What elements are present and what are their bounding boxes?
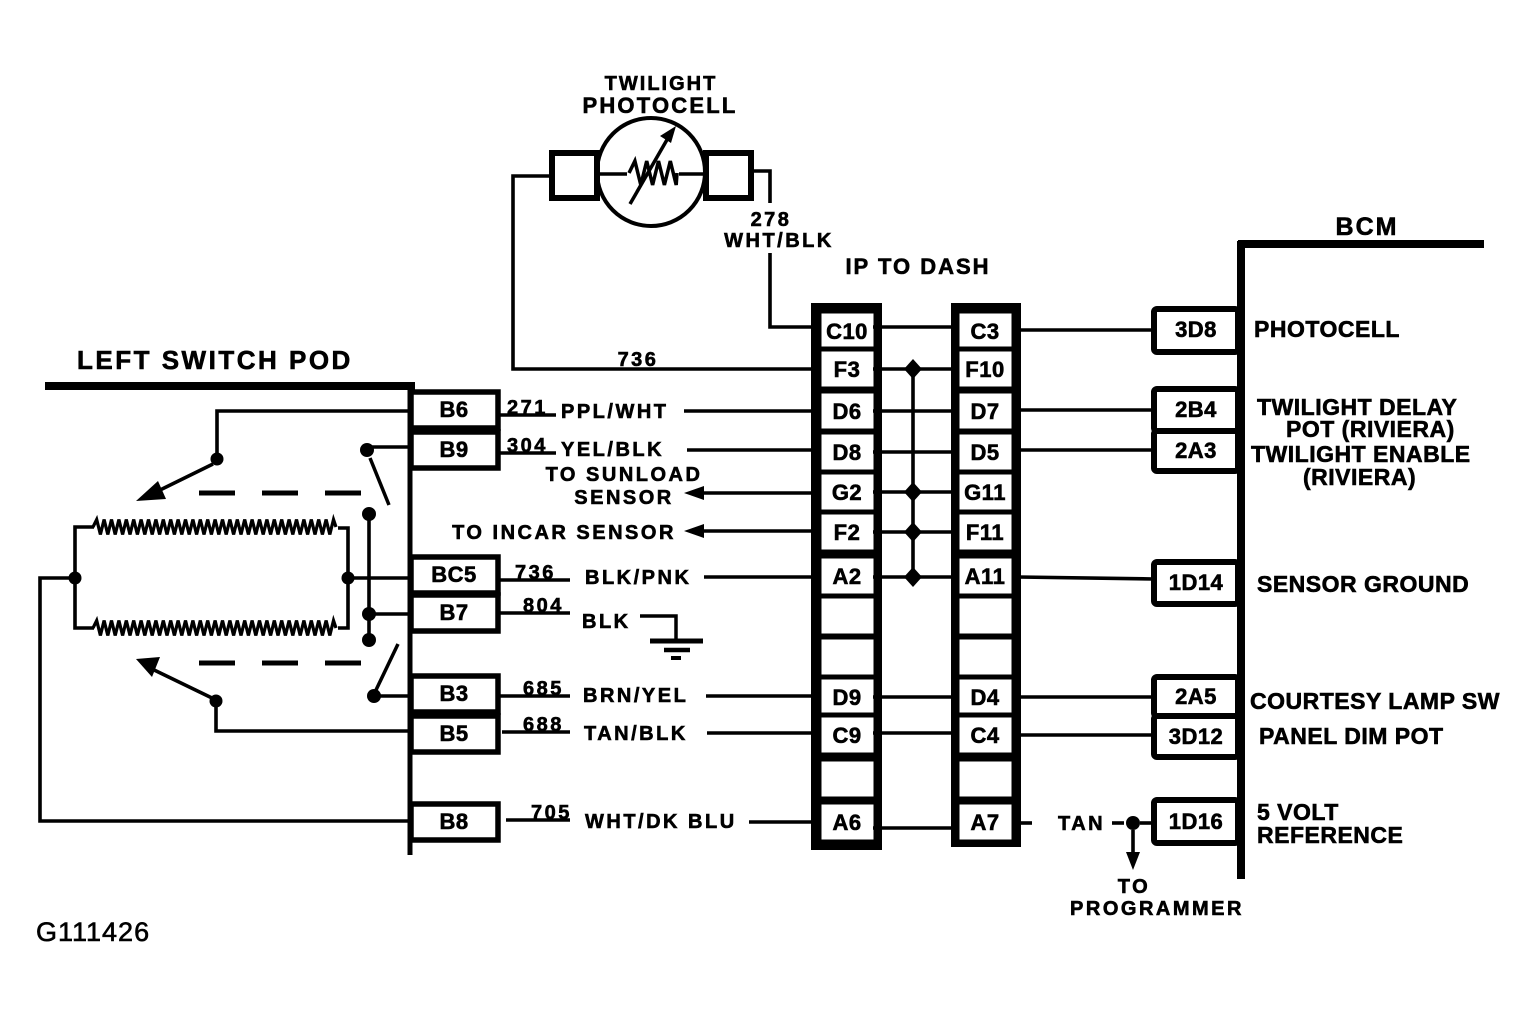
svg-text:A11: A11 — [965, 564, 1006, 589]
wire D9 to D4 — [873, 695, 959, 699]
wire 804 BLK from B7 to ground — [498, 611, 570, 615]
svg-text:B5: B5 — [439, 721, 468, 746]
svg-text:BRN/YEL: BRN/YEL — [583, 685, 688, 707]
dashed wiper travel line (top) — [199, 491, 363, 496]
wire C10 to C3 — [873, 325, 959, 329]
svg-text:TO: TO — [1118, 876, 1150, 898]
ground symbol G101 — [650, 639, 703, 644]
wire from bus to B7 — [369, 612, 411, 616]
svg-text:C3: C3 — [970, 319, 999, 344]
wire TAN to programmer — [1131, 830, 1135, 856]
wire from pot right terminal to BC5 — [348, 576, 411, 580]
potentiometer R1 top track — [93, 520, 336, 535]
node lower end of pod bus — [362, 633, 376, 647]
pin 2A3 (BCM) — [1154, 431, 1238, 471]
wire F2 to F11 — [873, 530, 959, 534]
BCM left boundary — [1237, 241, 1245, 879]
wire D4 to 2A5 — [1018, 695, 1154, 699]
pin A2 (IP column row) — [819, 556, 876, 596]
svg-text:BCM: BCM — [1336, 213, 1399, 241]
svg-text:D4: D4 — [970, 685, 999, 710]
svg-text:PROGRAMMER: PROGRAMMER — [1070, 898, 1244, 920]
potentiometer R1 bottom track — [93, 621, 336, 636]
photocell PC1 variability arrow — [630, 138, 668, 204]
pin G2 (IP column row) — [819, 472, 876, 512]
wire A7 TAN to 1D16 — [1018, 821, 1032, 825]
pin F2 (IP column row) — [819, 512, 876, 552]
pin blank (IP column row) — [819, 637, 876, 677]
svg-text:PANEL DIM POT: PANEL DIM POT — [1259, 723, 1444, 749]
pin 3D8 (BCM) — [1154, 309, 1238, 352]
svg-text:2A3: 2A3 — [1175, 438, 1217, 463]
pin 2A5 (BCM) — [1154, 677, 1238, 716]
pin blank (dash column row) — [957, 596, 1014, 636]
pin 3D12 (BCM) — [1154, 716, 1238, 757]
svg-text:PHOTOCELL: PHOTOCELL — [582, 93, 737, 118]
svg-text:D8: D8 — [832, 440, 861, 465]
pin 1D16 (BCM) — [1154, 800, 1238, 843]
junction left pot terminal — [69, 572, 82, 585]
pin B8 (left switch pod) — [411, 804, 498, 840]
svg-text:C4: C4 — [970, 723, 999, 748]
pod internal bus wire — [367, 514, 371, 640]
svg-text:BC5: BC5 — [431, 562, 477, 587]
connector column dash side (right) — [954, 306, 1018, 844]
svg-text:YEL/BLK: YEL/BLK — [561, 439, 664, 461]
node upper end of pod bus — [362, 507, 376, 521]
svg-text:736: 736 — [515, 562, 556, 584]
wire C3 to 3D8 — [1018, 328, 1154, 332]
wire 705 WHT/DK BLU from B8 to A6 — [506, 818, 570, 822]
wire A2 to A11 — [873, 575, 959, 579]
svg-text:SENSOR GROUND: SENSOR GROUND — [1257, 571, 1469, 597]
junction at G2 — [904, 482, 922, 502]
top wiper arrow — [156, 464, 213, 492]
wire 271 PPL/WHT from B6 to D6 — [498, 413, 556, 417]
wire 278 WHT/BLK from photocell right terminal to pin C10 — [751, 171, 770, 203]
pin D8 (IP column row) — [819, 432, 876, 472]
svg-text:1D16: 1D16 — [1169, 809, 1224, 834]
wire C9 to C4 — [873, 731, 959, 735]
svg-text:SENSOR: SENSOR — [574, 487, 673, 509]
BCM top boundary — [1238, 240, 1484, 248]
svg-text:TWILIGHT: TWILIGHT — [605, 73, 718, 95]
svg-text:LEFT SWITCH POD: LEFT SWITCH POD — [77, 345, 353, 375]
svg-text:271: 271 — [507, 397, 548, 419]
wire from bottom wiper to B5 — [216, 701, 411, 731]
pin B7 (left switch pod) — [411, 595, 498, 631]
pin F11 (dash column row) — [957, 512, 1014, 552]
pin D7 (dash column row) — [957, 391, 1014, 431]
pin blank (dash column row) — [957, 759, 1014, 799]
pin 1D14 (BCM) — [1154, 562, 1238, 604]
svg-text:D9: D9 — [832, 685, 861, 710]
junction at A2 — [904, 567, 922, 587]
svg-text:D7: D7 — [970, 399, 999, 424]
svg-text:G111426: G111426 — [36, 917, 150, 947]
svg-text:TAN: TAN — [1058, 813, 1105, 835]
pin B5 (left switch pod) — [411, 716, 498, 752]
svg-text:688: 688 — [523, 714, 564, 736]
pin B9 (left switch pod) — [411, 432, 498, 468]
junction at F2 — [904, 522, 922, 542]
svg-text:304: 304 — [507, 435, 548, 457]
junction B3 switch pivot — [367, 689, 381, 703]
potentiometer left end connector — [75, 527, 94, 628]
svg-text:3D8: 3D8 — [1175, 317, 1217, 342]
svg-text:B3: B3 — [439, 681, 468, 706]
junction TAN splice — [1126, 816, 1140, 830]
potentiometer right end connector — [338, 528, 348, 628]
wire 736 from photocell left terminal to pin F3 — [513, 176, 814, 369]
left switch pod top boundary — [45, 382, 415, 390]
pin C3 (dash column row) — [957, 311, 1014, 351]
svg-text:B6: B6 — [439, 397, 468, 422]
pin B3 (left switch pod) — [411, 676, 498, 712]
svg-text:A2: A2 — [832, 564, 861, 589]
pin A6 (IP column row) — [819, 802, 876, 842]
svg-text:F11: F11 — [966, 520, 1004, 545]
svg-text:G11: G11 — [964, 480, 1006, 505]
svg-text:F3: F3 — [834, 357, 861, 382]
svg-text:TO INCAR SENSOR: TO INCAR SENSOR — [452, 522, 676, 544]
connector column IP side (left) — [814, 306, 879, 847]
switch blade from B3 contact — [376, 644, 398, 690]
wire 688 TAN/BLK from B5 to C9 — [502, 730, 570, 734]
svg-text:B9: B9 — [439, 437, 468, 462]
wire D8 to D5 — [873, 450, 959, 454]
svg-text:804: 804 — [523, 595, 564, 617]
wire A11 to 1D14 — [1018, 577, 1154, 579]
wire from B3 pivot to B3 — [380, 694, 411, 698]
wire G2 to G11 — [873, 490, 959, 494]
svg-text:WHT/DK BLU: WHT/DK BLU — [585, 811, 737, 833]
pin blank (dash column row) — [957, 637, 1014, 677]
wire from B9 to switch contact — [372, 445, 411, 449]
pin D5 (dash column row) — [957, 432, 1014, 472]
pin F3 (IP column row) — [819, 349, 876, 389]
pin A11 (dash column row) — [957, 556, 1014, 596]
photocell PC1 resistor element — [597, 172, 627, 176]
svg-text:705: 705 — [531, 802, 572, 824]
svg-text:PPL/WHT: PPL/WHT — [561, 401, 669, 423]
pin BC5 (left switch pod) — [411, 557, 498, 593]
wire 685 BRN/YEL from B3 to D9 — [498, 694, 570, 698]
svg-text:F10: F10 — [965, 357, 1004, 382]
wire F3 to F10 — [873, 367, 959, 371]
svg-text:D6: D6 — [832, 399, 861, 424]
svg-text:C10: C10 — [826, 319, 868, 344]
pin blank (IP column row) — [819, 596, 876, 636]
svg-text:F2: F2 — [834, 520, 861, 545]
wire from B6 to top wiper — [217, 411, 411, 459]
svg-text:278: 278 — [751, 209, 792, 231]
pin A7 (dash column row) — [957, 802, 1014, 842]
svg-text:3D12: 3D12 — [1169, 724, 1224, 749]
pin F10 (dash column row) — [957, 349, 1014, 389]
svg-text:1D14: 1D14 — [1169, 570, 1224, 595]
svg-text:D5: D5 — [970, 440, 999, 465]
junction top wiper pivot — [211, 453, 224, 466]
svg-text:IP TO DASH: IP TO DASH — [845, 254, 990, 279]
wire A6 to A7 — [873, 826, 959, 830]
wire 736 BLK/PNK from BC5 to A2 — [498, 578, 570, 582]
photocell PC1 left terminal — [552, 153, 597, 198]
pin D6 (IP column row) — [819, 391, 876, 431]
svg-text:(RIVIERA): (RIVIERA) — [1303, 464, 1416, 490]
photocell PC1 body — [597, 118, 705, 226]
wire C4 to 3D12 — [1018, 733, 1154, 737]
svg-text:COURTESY LAMP SW: COURTESY LAMP SW — [1250, 688, 1500, 714]
pin B6 (left switch pod) — [411, 392, 498, 428]
dashed wiper travel line (bottom) — [199, 661, 363, 666]
left switch pod right boundary — [408, 384, 413, 855]
svg-text:685: 685 — [523, 678, 564, 700]
junction at F3 — [904, 359, 922, 379]
pin C10 (IP column row) — [819, 311, 876, 351]
junction B9 switch pivot — [360, 443, 374, 457]
photocell PC1 right terminal — [706, 153, 751, 198]
junction right pot terminal — [342, 572, 355, 585]
wire D6 to D7 — [873, 409, 959, 413]
svg-text:736: 736 — [618, 349, 659, 371]
switch blade from B9 contact — [370, 458, 389, 505]
svg-text:TO SUNLOAD: TO SUNLOAD — [546, 464, 703, 486]
wire from pot left terminal to B8 — [40, 578, 411, 821]
svg-text:TAN/BLK: TAN/BLK — [584, 723, 688, 745]
junction bottom wiper pivot — [210, 695, 223, 708]
pin G11 (dash column row) — [957, 472, 1014, 512]
pin C9 (IP column row) — [819, 715, 876, 755]
svg-text:2A5: 2A5 — [1175, 684, 1217, 709]
svg-text:PHOTOCELL: PHOTOCELL — [1254, 316, 1400, 342]
svg-text:B7: B7 — [439, 600, 468, 625]
svg-text:BLK: BLK — [582, 611, 631, 633]
pin D4 (dash column row) — [957, 677, 1014, 717]
wire 304 YEL/BLK from B9 to D8 — [498, 451, 556, 455]
svg-text:B8: B8 — [439, 809, 468, 834]
svg-text:POT (RIVIERA): POT (RIVIERA) — [1286, 416, 1455, 442]
junction B7 tap — [362, 607, 376, 621]
svg-text:A7: A7 — [970, 810, 999, 835]
pin D9 (IP column row) — [819, 677, 876, 717]
svg-text:BLK/PNK: BLK/PNK — [585, 567, 691, 589]
svg-text:G2: G2 — [832, 480, 862, 505]
svg-text:REFERENCE: REFERENCE — [1257, 822, 1403, 848]
svg-text:WHT/BLK: WHT/BLK — [724, 230, 834, 252]
svg-text:2B4: 2B4 — [1175, 397, 1217, 422]
svg-text:A6: A6 — [832, 810, 861, 835]
bottom wiper arrow — [150, 668, 212, 698]
wire D5 to 2A3 — [1018, 448, 1154, 452]
pin 2B4 (BCM) — [1154, 389, 1238, 431]
svg-text:C9: C9 — [832, 723, 861, 748]
wire D7 to 2B4 — [1018, 408, 1154, 412]
pin C4 (dash column row) — [957, 715, 1014, 755]
sensor ground bus between columns — [911, 369, 915, 577]
pin blank (IP column row) — [819, 759, 876, 799]
